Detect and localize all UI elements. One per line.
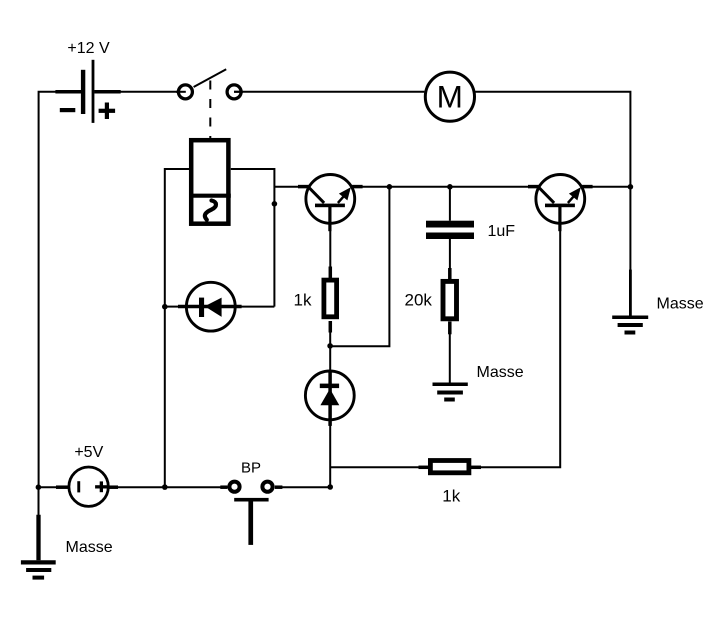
svg-text:+12 V: +12 V xyxy=(67,40,110,57)
svg-text:1uF: 1uF xyxy=(488,223,516,240)
switch S1 xyxy=(176,69,243,99)
push button BP xyxy=(220,482,282,545)
diode D1 (flyback) xyxy=(178,282,242,331)
wire D2 node rail to R3 xyxy=(330,466,419,468)
wire diode right to relay-right vertical xyxy=(241,306,274,308)
transistor Q1 xyxy=(298,175,363,232)
node right rail / Q2 emitter xyxy=(628,184,634,190)
node BP / D2 xyxy=(327,484,333,490)
wire relay right, down to diode level xyxy=(231,169,275,307)
svg-text:Masse: Masse xyxy=(657,296,704,313)
wire relay left to left mid rail, down to BP rail xyxy=(165,169,190,487)
wire R3 to Q2 base xyxy=(481,231,561,467)
node R1 bottom xyxy=(327,343,333,349)
ground (20k) xyxy=(433,384,468,399)
wire node to capacitor xyxy=(449,187,451,221)
svg-text:BP: BP xyxy=(241,459,261,476)
wire battery right to switch xyxy=(120,91,185,93)
dashed link switch to relay xyxy=(209,81,211,139)
svg-text:Masse: Masse xyxy=(477,364,524,381)
wire node to diode xyxy=(165,306,180,308)
wire motor to right rail corner, down to Q2 emitter node xyxy=(475,92,630,270)
wire node to diode D2 xyxy=(329,346,331,371)
relay K1 coil xyxy=(189,140,231,224)
svg-text:1k: 1k xyxy=(294,290,312,309)
svg-text:M: M xyxy=(437,79,463,115)
svg-text:1k: 1k xyxy=(442,486,460,505)
wire Q1 base down to resistor xyxy=(329,230,331,267)
ground (right) xyxy=(612,270,648,333)
wire Q1 emitter rail to Q2 collector xyxy=(362,186,528,188)
wire R1 to node xyxy=(329,332,331,346)
svg-text:Masse: Masse xyxy=(66,539,113,556)
wire Q2 emitter to right rail xyxy=(592,186,630,188)
capacitor C1 1uF xyxy=(426,221,474,239)
motor M xyxy=(425,72,474,121)
node Q1 emitter junction xyxy=(387,184,393,190)
svg-text:+5V: +5V xyxy=(74,444,103,461)
wire 20k to ground xyxy=(449,334,451,383)
resistor R2 20k xyxy=(443,268,457,334)
node on relay-right vertical xyxy=(272,201,278,207)
wire to Q1 collector xyxy=(274,186,300,188)
node capacitor top xyxy=(447,184,453,190)
node diode left xyxy=(162,304,168,310)
node left rail / +5V xyxy=(36,484,42,490)
wire capacitor to 20k xyxy=(449,239,451,281)
wire node to +5V source xyxy=(38,486,68,488)
svg-text:20k: 20k xyxy=(405,291,433,310)
diode D2 xyxy=(305,370,354,426)
battery B1 +12V xyxy=(55,60,120,123)
wire switch to motor xyxy=(234,91,424,93)
resistor R3 1k xyxy=(419,461,482,473)
resistor R1 1k xyxy=(324,267,337,333)
ground (left) xyxy=(21,487,56,577)
node left mid rail on BP wire xyxy=(162,484,168,490)
source +5V xyxy=(56,467,118,506)
wire BP to D2 node xyxy=(282,486,330,488)
transistor Q2 xyxy=(528,175,593,232)
wire battery left to left rail, down to +5V node xyxy=(39,92,56,487)
wire D2 bottom to BP node xyxy=(329,426,331,488)
wire down from emitter node to 1k bottom node xyxy=(330,187,389,346)
wire +5V to BP xyxy=(117,486,228,488)
